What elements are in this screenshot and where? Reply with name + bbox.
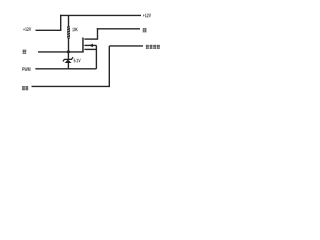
label +12V right <box>143 14 151 18</box>
wire speed bottom rail <box>32 85 111 87</box>
transistor Q1 source stub <box>84 48 96 50</box>
zener diode D1 top lead <box>67 52 69 59</box>
value label 10K <box>72 28 77 32</box>
wire PWM rail <box>35 68 96 70</box>
transistor Q1 drain riser <box>97 28 99 40</box>
wire ground-left to gate <box>38 51 84 53</box>
transistor Q1 source riser <box>95 45 97 68</box>
transistor Q1 drain stub <box>84 38 97 40</box>
label ground (Chinese) right <box>143 28 147 32</box>
label PWM <box>22 67 30 71</box>
zener diode D1 triangle <box>65 60 72 64</box>
wire left +12V lead <box>36 29 62 31</box>
zener diode D1 bottom lead <box>67 63 69 69</box>
wire speed detect top <box>109 45 143 47</box>
transistor Q1 middle stub <box>84 44 96 46</box>
transistor Q1 gate bar <box>82 38 84 53</box>
wire drain to ground-right <box>97 28 140 30</box>
resistor R1 top lead <box>68 15 70 26</box>
transistor Q1 arrow <box>89 44 93 48</box>
resistor R1 body 10K <box>67 26 70 38</box>
label ground (Chinese) left <box>23 50 27 54</box>
wire +12V top rail <box>60 14 141 16</box>
wire left +12V riser <box>60 15 62 31</box>
zener diode D1 cathode bar <box>63 57 73 61</box>
resistor R1 bottom lead <box>68 39 70 52</box>
label speed-detect (Chinese 4 chars) <box>146 45 160 49</box>
wire speed riser <box>108 46 110 87</box>
label speed (Chinese 2 chars) <box>22 86 28 90</box>
node junction gate/zener/resistor <box>67 50 70 53</box>
label +12V left <box>23 27 31 31</box>
value label 5.1V <box>74 59 81 63</box>
